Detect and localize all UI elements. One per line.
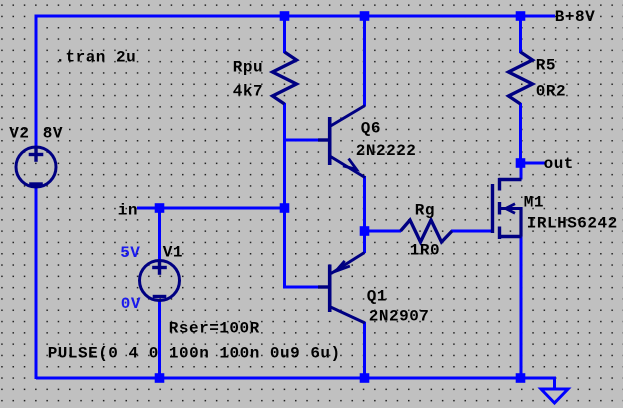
svg-text:Rpu: Rpu [233,59,263,77]
svg-text:IRLHS6242: IRLHS6242 [527,215,618,233]
svg-text:PULSE(0 4 0 100n 100n 0u9 6u): PULSE(0 4 0 100n 100n 0u9 6u) [48,345,341,363]
voltage source V2 [16,147,56,187]
wire R5 top lead [519,16,522,53]
wire Q1 collector to bottom rail [363,322,366,379]
wire top rail B+8V [36,15,555,18]
svg-text:V1: V1 [163,244,183,262]
wire M1 drain vertical [520,163,523,180]
junction bottom M1 source [516,373,526,383]
wire Rpu bottom lead to base node [283,103,286,140]
svg-text:R5: R5 [536,57,556,75]
svg-text:5V: 5V [120,244,140,262]
junction top Q6 collector [360,11,370,21]
wire Rg left lead [365,230,402,233]
wire V1 bottom (V1 minus pin to bottom rail) [158,301,161,379]
junction top Rpu [280,11,290,21]
wire left vertical lower (V2 minus pin to bottom rail) [35,188,38,379]
wire left vertical upper (top rail to V2 plus pin) [35,15,38,148]
svg-text:B+8V: B+8V [555,8,595,26]
wire out stub [521,162,546,165]
svg-text:1R0: 1R0 [410,242,440,260]
junction in node V1 [155,203,165,213]
svg-text:0V: 0V [121,295,141,313]
svg-text:Rg: Rg [415,202,435,220]
wire Rpu top lead [283,16,286,53]
svg-text:in: in [118,202,138,220]
svg-text:2N2222: 2N2222 [356,142,417,160]
wire Q6 emitter to Rg node [363,176,366,253]
junction top R5 [516,11,526,21]
junction emitter Rg node [360,226,370,236]
junction in node base bus [280,203,290,213]
wire Q6 collector to top rail [363,16,366,106]
wire Rg right lead to M1 gate [451,230,492,233]
junction bottom Q1 [360,373,370,383]
svg-text:4k7: 4k7 [233,83,263,101]
wire in label to node A [137,207,284,210]
transistor Q1 (PNP 2N2907) [318,253,365,324]
svg-text:2N2907: 2N2907 [369,308,430,326]
wire Q1 base horizontal [285,286,320,289]
svg-text:.tran 2u: .tran 2u [55,49,136,67]
wire ground stub [521,378,555,389]
voltage source V1 [140,260,180,300]
svg-text:out: out [544,155,574,173]
svg-text:V2: V2 [9,125,29,143]
mosfet M1 (NMOS IRLHS6242) [493,178,522,239]
transistor Q6 (NPN 2N2222) [318,106,365,178]
ground [541,389,568,403]
svg-text:Q6: Q6 [361,120,381,138]
svg-text:Rser=100R: Rser=100R [169,320,260,338]
svg-text:M1: M1 [524,194,544,212]
wire Q6 base horizontal [285,139,320,142]
svg-text:0R2: 0R2 [536,83,566,101]
wire base bus vertical (Q6 base to Q1 base) [283,140,286,289]
wire M1 source to bottom rail [520,237,523,380]
resistor Rpu [273,52,297,104]
junction out node [516,158,526,168]
wire V1 top (in node to V1 plus pin) [158,208,161,260]
svg-text:8V: 8V [43,125,63,143]
resistor Rg [401,220,453,242]
junction bottom V1 [155,373,165,383]
wire R5 bottom lead to out node [519,103,522,164]
svg-text:Q1: Q1 [367,288,387,306]
wire bottom rail [36,377,554,380]
resistor R5 [509,52,533,104]
